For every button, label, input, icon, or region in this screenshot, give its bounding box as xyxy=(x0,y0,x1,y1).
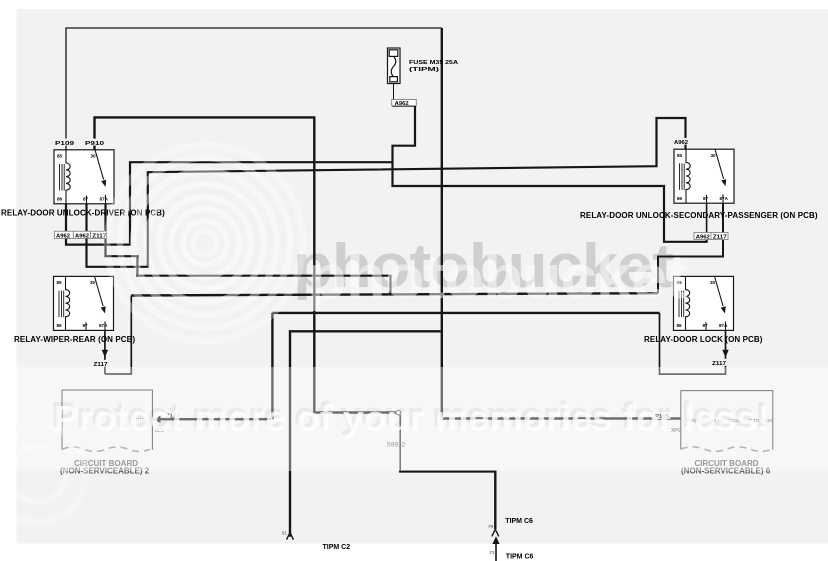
svg-text:87A: 87A xyxy=(99,323,108,328)
wire Z117: right leg to relay R2 pin87A xyxy=(658,204,723,294)
wire Z117: left riser to relay R3 pin87A xyxy=(105,296,131,375)
svg-text:87A: 87A xyxy=(100,197,109,202)
svg-text:FUSE M35 25A: FUSE M35 25A xyxy=(409,60,458,66)
wire A962 branch: feed rail left to relay R1 pin86 xyxy=(66,162,393,244)
svg-text:85: 85 xyxy=(57,280,63,285)
wire label P109 at board 6 xyxy=(654,412,670,420)
svg-text:87: 87 xyxy=(703,196,709,201)
svg-text:86: 86 xyxy=(677,196,683,201)
relay R1 pin labels 85 30 86 87 87A xyxy=(57,154,109,202)
relay R1 pin label P910 xyxy=(84,139,107,147)
wire Z117: lower-left leg to circuit board 2 xyxy=(159,313,273,419)
relay R2 pin labels 85 30 86 87 87A xyxy=(677,153,729,201)
relay R2 switch arrowhead xyxy=(721,179,726,186)
watermark band xyxy=(17,367,828,471)
connector TIPM C6 fork xyxy=(492,529,499,536)
svg-text:86: 86 xyxy=(677,323,683,328)
svg-text:photobucket: photobucket xyxy=(307,243,687,312)
relay R1 RELAY-DOOR UNLOCK-DRIVER xyxy=(54,150,114,204)
svg-text:P109: P109 xyxy=(55,141,74,147)
relay R4 wire label Z117 xyxy=(711,359,728,367)
junction node S9932 xyxy=(396,410,401,415)
relay R4 RELAY-DOOR LOCK xyxy=(674,276,734,330)
svg-text:TIPM C2: TIPM C2 xyxy=(323,544,351,551)
relay R3 Z117 arrow marker xyxy=(102,350,108,358)
svg-text:(TIPM): (TIPM) xyxy=(409,67,439,73)
svg-text:30: 30 xyxy=(91,154,97,159)
svg-text:F9: F9 xyxy=(489,524,495,529)
connector TIPM C6 lower arrow xyxy=(492,536,499,544)
wire label A962 under fuse xyxy=(392,99,416,106)
svg-text:85: 85 xyxy=(677,153,683,158)
svg-text:85: 85 xyxy=(57,154,63,159)
relay R4 Z117 arrow marker xyxy=(722,350,728,358)
relay R1 pin label P109 xyxy=(54,139,76,147)
relay R2 wire label A962 above box xyxy=(673,138,690,146)
svg-text:RELAY-DOOR UNLOCK-SECONDARY-PA: RELAY-DOOR UNLOCK-SECONDARY-PASSENGER (O… xyxy=(580,211,818,220)
relay R3 pin labels 85 30 86 87 87A xyxy=(57,280,109,328)
svg-text:87: 87 xyxy=(83,323,89,328)
relay R1 wire labels A962 A962 Z117 xyxy=(54,231,106,239)
relay R3 RELAY-WIPER-REAR xyxy=(54,276,114,330)
wire TIPM C6 bottom stub xyxy=(495,544,497,561)
watermark overlays xyxy=(0,145,828,522)
svg-text:86: 86 xyxy=(57,323,63,328)
svg-text:RELAY-DOOR LOCK (ON PCB): RELAY-DOOR LOCK (ON PCB) xyxy=(644,335,763,344)
circuit board 6 box xyxy=(681,391,773,452)
svg-text:30: 30 xyxy=(90,280,96,285)
svg-text:RELAY-WIPER-REAR (ON PCB): RELAY-WIPER-REAR (ON PCB) xyxy=(14,335,136,344)
relay R1 switch arrowhead xyxy=(101,180,106,187)
svg-text:87: 87 xyxy=(703,323,709,328)
svg-text:A962: A962 xyxy=(395,101,409,107)
relay R2 wire labels A962 Z117 xyxy=(694,232,728,240)
watermark swirl rings xyxy=(0,145,303,522)
svg-text:87A: 87A xyxy=(720,196,729,201)
wire P109 branch: TIPM C2 riser to junction xyxy=(290,331,441,537)
relay R4 switch arrowhead xyxy=(721,306,726,313)
svg-text:F3: F3 xyxy=(490,550,496,555)
svg-text:Protect more of your memories: Protect more of your memories for less! xyxy=(54,398,770,439)
svg-text:86: 86 xyxy=(57,197,63,202)
wire P109 trunk: top rail corner down right side to circuit board 6 xyxy=(442,28,681,419)
circuit board 2 entry arrow xyxy=(153,416,161,423)
svg-text:87: 87 xyxy=(83,197,89,202)
svg-text:P910: P910 xyxy=(85,141,104,147)
wire Z117 bus upper: across page xyxy=(131,293,658,295)
wire P910: node S9932 drop to TIPM C6 xyxy=(399,415,401,471)
watermark dark wordmark (behind wires) xyxy=(293,232,673,301)
wire A962: fuse output jog down to feed rail xyxy=(392,106,706,242)
relay R3 wire label Z117 xyxy=(93,360,110,368)
wire P109: relay R1 pin85 up to top rail xyxy=(66,28,442,150)
svg-text:TIPM C6: TIPM C6 xyxy=(505,518,533,525)
wire A962: relay R2 pin87 stub through label xyxy=(706,204,708,240)
svg-text:A962: A962 xyxy=(75,233,89,239)
wire Z117: lower-right leg to relay R4 pin87A xyxy=(660,313,726,374)
relay R2 RELAY-DOOR UNLOCK-SECONDARY-PASSENGER xyxy=(674,149,734,203)
relay R3 switch arrowhead xyxy=(101,306,106,313)
circuit board 2 box xyxy=(62,390,152,451)
wire Z117: relay R1 pin87A jog to Z bus xyxy=(106,203,391,294)
wire A862: relay R1 pin87 to relay R2 pin85 xyxy=(87,118,686,267)
wire Z117 bus lower: across page xyxy=(272,312,659,314)
svg-text:Z117: Z117 xyxy=(713,235,727,241)
fuse F M35 body xyxy=(388,48,401,100)
svg-text:87A: 87A xyxy=(719,323,728,328)
relay R4 pin labels 85 30 86 87 87A xyxy=(677,280,729,328)
svg-text:A962: A962 xyxy=(56,233,70,239)
svg-text:A962: A962 xyxy=(696,235,710,241)
svg-text:TIPM C6: TIPM C6 xyxy=(506,554,534,561)
svg-text:Z117: Z117 xyxy=(712,361,726,367)
wire P910: lower run to TIPM C6 connector xyxy=(399,471,495,529)
wire P910: relay R1 pin30 right and down to node S9932 xyxy=(95,117,396,412)
wire Z117: relay R3 pin87A drop xyxy=(104,331,106,374)
connector TIPM C2 fork xyxy=(287,533,294,540)
svg-text:30: 30 xyxy=(711,153,717,158)
svg-text:81: 81 xyxy=(282,531,287,536)
svg-text:30: 30 xyxy=(710,280,716,285)
svg-text:A962: A962 xyxy=(674,140,688,146)
